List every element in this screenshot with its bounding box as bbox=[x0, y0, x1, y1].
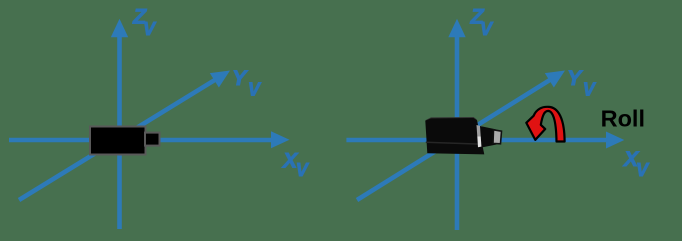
lens front face bbox=[493, 130, 502, 144]
camera lens (left) bbox=[145, 133, 160, 146]
arrowhead of right Z_V axis bbox=[448, 19, 465, 38]
arrowhead of right X_V axis bbox=[606, 132, 624, 149]
svg-text:V: V bbox=[636, 160, 650, 180]
camera body (right, rolled 3D box) bbox=[425, 117, 501, 154]
wire: right Z_V axis vertical line bbox=[455, 36, 460, 230]
arrowhead of left Z_V axis bbox=[111, 19, 128, 38]
arrowhead of left X_V axis bbox=[271, 131, 290, 148]
svg-text:Y: Y bbox=[232, 66, 248, 90]
svg-text:V: V bbox=[296, 160, 310, 180]
wire: right X_V axis horizontal line bbox=[346, 138, 607, 143]
lens barrel bbox=[480, 126, 497, 148]
svg-text:V: V bbox=[143, 19, 157, 39]
wire: right Y_V axis diagonal line bbox=[357, 80, 551, 200]
svg-text:V: V bbox=[480, 19, 494, 39]
arrowhead of right Y_V axis bbox=[545, 71, 565, 88]
svg-text:Roll: Roll bbox=[601, 106, 645, 132]
roll arrow (red curved arrow) bbox=[526, 107, 564, 142]
camera body (left, un-rotated) bbox=[90, 127, 146, 155]
svg-text:Y: Y bbox=[567, 66, 583, 90]
svg-text:V: V bbox=[248, 79, 262, 99]
lens flange highlight (lower, bright) bbox=[477, 137, 484, 148]
lens flange highlight (upper, dimmer) bbox=[477, 125, 484, 137]
wire: left Y_V axis diagonal line bbox=[19, 80, 216, 200]
svg-text:V: V bbox=[583, 79, 597, 99]
top face sliver bbox=[425, 117, 477, 121]
wire: left Z_V axis vertical line bbox=[117, 36, 122, 229]
wire: left X_V axis horizontal line bbox=[9, 138, 272, 143]
mid ridge bbox=[426, 142, 484, 144]
arrowhead of left Y_V axis bbox=[210, 71, 230, 88]
main body face bbox=[425, 118, 484, 154]
